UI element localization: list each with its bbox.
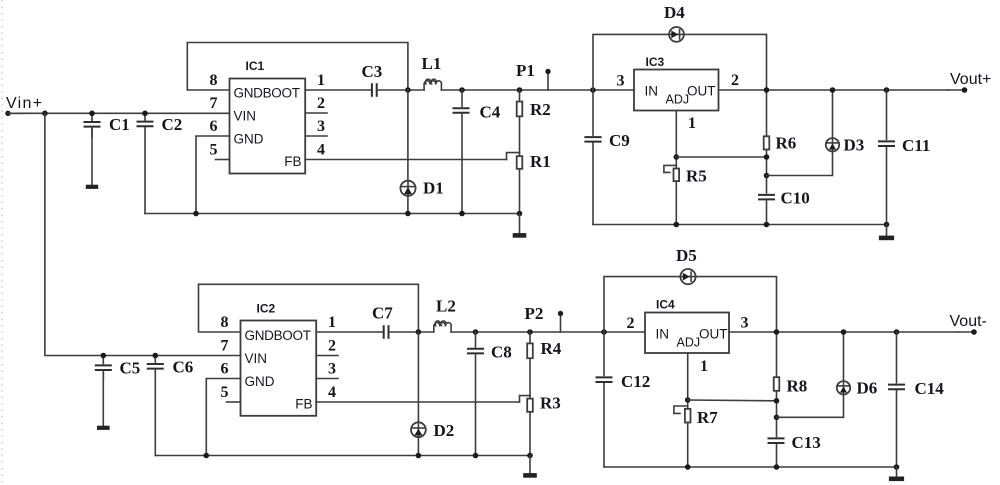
svg-text:C2: C2 — [162, 115, 183, 134]
voltage regulator IC3 body — [634, 70, 719, 111]
svg-text:R3: R3 — [540, 394, 561, 413]
pin 2 label IC2 — [328, 338, 336, 355]
wire ADJ node to R6 bottom — [676, 154, 769, 160]
label IC4 — [656, 298, 675, 312]
pin 4 label IC1 — [317, 142, 325, 159]
resistor R7 (preset, on ADJ line) — [674, 406, 691, 423]
svg-text:C11: C11 — [902, 136, 930, 155]
capacitor C8 — [467, 329, 486, 458]
svg-text:2: 2 — [317, 95, 325, 112]
svg-text:2: 2 — [627, 315, 635, 332]
svg-text:C13: C13 — [792, 433, 821, 452]
node Vout- terminal — [958, 329, 977, 335]
wire IC3 OUT pin 2 to output node — [719, 89, 949, 91]
wire IC2 pin 3 stub — [316, 378, 338, 380]
svg-text:Vin+: Vin+ — [6, 95, 43, 112]
label IC2 — [257, 302, 276, 316]
label D3 — [844, 136, 865, 155]
pin name VIN IC2 — [245, 351, 268, 366]
wire IC2 pin 1 to C7 — [316, 331, 383, 333]
capacitor C13 — [767, 437, 786, 444]
label IC1 — [246, 59, 265, 73]
svg-text:4: 4 — [328, 384, 336, 401]
label D1 — [423, 179, 444, 198]
pin 3 label IC2 — [328, 361, 336, 378]
pin 5 label IC1 — [210, 142, 218, 159]
wire IC2 boot loop pin 8 — [199, 284, 419, 332]
svg-text:VIN: VIN — [245, 351, 268, 366]
svg-text:2: 2 — [328, 338, 336, 355]
capacitor C6 — [146, 353, 164, 456]
label C13 — [792, 433, 821, 452]
svg-text:7: 7 — [221, 338, 229, 355]
label C14 — [915, 379, 945, 398]
svg-text:C10: C10 — [781, 189, 810, 208]
wire IC2 pin 5 stub — [227, 401, 241, 403]
junction IC4 output at loop right — [774, 329, 780, 335]
pin 3 label IC1 — [317, 118, 325, 135]
svg-text:L1: L1 — [422, 54, 442, 73]
svg-text:1: 1 — [700, 358, 708, 375]
wire ground rail B (IC3 section) — [593, 222, 889, 228]
svg-text:C7: C7 — [372, 304, 393, 323]
wire L2 to IC4 IN — [451, 331, 645, 333]
capacitor C5 — [94, 353, 112, 428]
svg-text:Vout+: Vout+ — [950, 71, 991, 88]
label R2 — [530, 100, 551, 119]
pin name FB IC1 — [284, 154, 301, 169]
wire ground rail C (bottom converter) — [155, 455, 530, 457]
voltage regulator IC4 body — [645, 313, 729, 354]
wire IC1 pin 3 stub — [305, 135, 327, 137]
wire IC1 GND pin 6 to rail — [193, 136, 229, 216]
wire IC1 boot loop pin 8 — [187, 43, 408, 91]
svg-text:7: 7 — [210, 95, 218, 112]
diode D6 (circled) — [837, 381, 850, 394]
junction ADJ / R5 node — [674, 154, 680, 160]
wire IC2 FB pin 4 to R3 tap — [316, 401, 519, 403]
svg-text:P1: P1 — [516, 61, 535, 80]
svg-text:IN: IN — [645, 84, 659, 99]
wire IC1 FB pin 4 to R1 tap — [305, 159, 506, 161]
capacitor C7 — [384, 325, 434, 339]
pin name GND BOOT IC2 — [245, 328, 311, 343]
junction Vin+ branch to lower section — [42, 111, 48, 117]
pin name ADJ IC4 — [677, 336, 701, 350]
svg-text:C4: C4 — [480, 103, 501, 122]
pin 1 label IC4 — [700, 358, 708, 375]
svg-text:C8: C8 — [491, 343, 512, 362]
svg-text:C3: C3 — [362, 62, 383, 81]
svg-text:D1: D1 — [423, 179, 444, 198]
wire ground rail A (top converter) — [145, 213, 520, 215]
svg-text:2: 2 — [731, 72, 739, 89]
svg-text:1: 1 — [688, 115, 696, 132]
svg-text:D3: D3 — [844, 136, 865, 155]
pin name IN IC4 — [656, 327, 670, 342]
svg-text:R7: R7 — [697, 408, 718, 427]
pin 4 label IC2 — [328, 384, 336, 401]
svg-text:5: 5 — [221, 384, 229, 401]
wire node to diode D3 — [767, 87, 836, 175]
capacitor C1 — [83, 111, 101, 187]
wire IC4 ADJ pin 1 down — [687, 353, 689, 467]
pin name OUT IC3 — [687, 84, 716, 99]
ground (top converter rail A) — [513, 214, 527, 236]
capacitor C14 — [888, 329, 907, 467]
svg-text:D6: D6 — [857, 379, 878, 398]
wire IC4 OUT pin 3 to output node — [729, 331, 958, 333]
svg-text:OUT: OUT — [699, 327, 728, 342]
svg-text:IN: IN — [656, 327, 670, 342]
wire IC3 protection loop (left, top, right) — [593, 34, 767, 224]
svg-text:1: 1 — [328, 314, 336, 331]
pin 8 label IC2 — [221, 314, 229, 331]
wire IC1 pin 5 stub — [216, 159, 230, 161]
pin name VIN IC1 — [234, 109, 257, 124]
label C9 — [609, 131, 630, 150]
label C10 — [781, 189, 810, 208]
svg-text:GND: GND — [234, 132, 264, 147]
svg-text:C9: C9 — [609, 131, 630, 150]
label R5 — [686, 167, 707, 186]
resistor R6 — [764, 136, 770, 149]
pin 1 label IC1 — [317, 72, 325, 89]
svg-text:1: 1 — [317, 72, 325, 89]
pin name GND BOOT IC1 — [234, 86, 300, 101]
label Vout+ — [950, 71, 991, 88]
pin name FB IC2 — [295, 397, 312, 412]
label C12 — [621, 372, 650, 391]
svg-text:D5: D5 — [676, 246, 697, 265]
svg-text:R5: R5 — [686, 167, 707, 186]
label D5 — [676, 246, 697, 265]
svg-text:6: 6 — [210, 118, 218, 135]
capacitor C3 — [372, 83, 424, 97]
capacitor C12 — [595, 376, 614, 383]
capacitor C11 — [878, 87, 897, 224]
svg-text:8: 8 — [210, 72, 218, 89]
svg-text:3: 3 — [617, 73, 625, 90]
label C7 — [372, 304, 393, 323]
diode D3 (circled) — [826, 138, 839, 151]
svg-text:D4: D4 — [664, 3, 685, 22]
resistor R8 — [774, 377, 780, 391]
pin 6 label IC2 — [221, 361, 229, 378]
svg-text:C1: C1 — [109, 115, 130, 134]
label R7 — [697, 408, 718, 427]
capacitor C10 — [758, 194, 777, 201]
diode D4 (circled, across IC3) — [669, 27, 684, 42]
label D6 — [857, 379, 878, 398]
junction D1 at rail A — [405, 211, 411, 217]
junction IC3 input node — [590, 87, 596, 93]
wire IC1 pin 2 stub — [305, 112, 327, 114]
svg-text:IC2: IC2 — [257, 302, 276, 316]
pin 2 label IC3 — [731, 72, 739, 89]
pin name GND IC2 — [245, 374, 275, 389]
svg-text:R1: R1 — [530, 152, 551, 171]
junction R3 at rail C — [527, 453, 533, 459]
pin 1 label IC2 — [328, 314, 336, 331]
junction R6/C10/D3 node — [764, 173, 770, 179]
pin 7 label IC1 — [210, 95, 218, 112]
ic IC2 body — [241, 321, 317, 416]
svg-text:GNDBOOT: GNDBOOT — [245, 328, 311, 343]
svg-text:C6: C6 — [173, 358, 194, 377]
label D4 — [664, 3, 685, 22]
label C3 — [362, 62, 383, 81]
svg-text:5: 5 — [210, 142, 218, 159]
junction P1 node — [517, 87, 523, 93]
pin 8 label IC1 — [210, 72, 218, 89]
ground (bottom converter rail C) — [523, 456, 537, 476]
label C1 — [109, 115, 130, 134]
wire IC1 pin 1 to C3 — [305, 89, 372, 91]
wire IC2 pin 2 stub — [316, 355, 338, 357]
label C6 — [173, 358, 194, 377]
svg-text:6: 6 — [221, 361, 229, 378]
inductor L1 — [424, 79, 441, 90]
capacitor C4 — [452, 87, 470, 216]
label C2 — [162, 115, 183, 134]
pin 7 label IC2 — [221, 338, 229, 355]
junction IC4 input node — [601, 329, 607, 335]
pin 3 label IC3 — [617, 73, 625, 90]
label C8 — [491, 343, 512, 362]
junction R8/C13/D6 node — [774, 415, 780, 421]
wire Vin+ rail to IC1 VIN pin 7 — [8, 112, 230, 114]
svg-text:VIN: VIN — [234, 109, 257, 124]
label C4 — [480, 103, 501, 122]
svg-text:IC4: IC4 — [656, 298, 675, 312]
resistor R4 — [527, 332, 533, 399]
label D2 — [434, 421, 455, 440]
pin name IN IC3 — [645, 84, 659, 99]
label R1 — [530, 152, 551, 171]
svg-text:3: 3 — [317, 118, 325, 135]
svg-text:OUT: OUT — [687, 84, 716, 99]
resistor R2 — [517, 90, 523, 156]
wire Vin+ input lead — [5, 111, 24, 116]
svg-text:GNDBOOT: GNDBOOT — [234, 86, 300, 101]
junction boot loop / switch node 2 — [416, 329, 422, 335]
wire ground rail D (IC4 section) — [604, 464, 899, 470]
svg-text:P2: P2 — [525, 304, 544, 323]
junction P2 node — [527, 329, 533, 335]
label R4 — [541, 339, 562, 358]
wire ADJ node to R8 bottom — [688, 398, 780, 404]
label L1 — [422, 54, 442, 73]
wire Vin+ feed down to lower section — [45, 113, 241, 355]
pin 3 label IC4 — [741, 315, 749, 332]
wire L1 to IC3 IN — [441, 89, 634, 91]
diode D5 (circled, across IC4) — [680, 269, 695, 284]
pin name ADJ IC3 — [666, 93, 690, 107]
capacitor C2 — [136, 111, 154, 214]
svg-text:R4: R4 — [541, 339, 562, 358]
junction ADJ / R7 node — [685, 397, 691, 403]
pin 5 label IC2 — [221, 384, 229, 401]
label R3 — [540, 394, 561, 413]
test point P2 probe — [558, 311, 563, 332]
svg-text:D2: D2 — [434, 421, 455, 440]
svg-text:8: 8 — [221, 314, 229, 331]
wire IC4 protection loop (left, top, right) — [604, 277, 777, 467]
svg-text:IC1: IC1 — [246, 59, 265, 73]
ground (rail D) — [889, 467, 904, 479]
label Vout- — [950, 313, 987, 330]
resistor R5 (preset, on ADJ line) — [664, 165, 679, 181]
pin 1 label IC3 — [688, 115, 696, 132]
svg-text:C12: C12 — [621, 372, 650, 391]
svg-text:R6: R6 — [776, 134, 797, 153]
svg-text:ADJ: ADJ — [677, 336, 701, 350]
pin 2 label IC4 — [627, 315, 635, 332]
label R6 — [776, 134, 797, 153]
svg-text:GND: GND — [245, 374, 275, 389]
pin 6 label IC1 — [210, 118, 218, 135]
junction D2 at rail C — [416, 453, 422, 459]
node Vout+ terminal — [948, 87, 967, 93]
svg-text:C14: C14 — [915, 379, 945, 398]
pin name OUT IC4 — [699, 327, 728, 342]
diode D1 (circled, on switch node to ground) — [400, 90, 415, 214]
svg-text:IC3: IC3 — [646, 55, 665, 69]
svg-text:R2: R2 — [530, 100, 551, 119]
wire node to diode D6 — [777, 329, 847, 417]
capacitor C9 — [584, 136, 603, 143]
svg-text:3: 3 — [328, 361, 336, 378]
svg-text:C5: C5 — [120, 359, 141, 378]
junction IC3 output at loop right — [764, 87, 770, 93]
svg-text:L2: L2 — [436, 297, 456, 316]
label P2 — [525, 304, 544, 323]
label R8 — [787, 377, 808, 396]
svg-text:4: 4 — [317, 142, 325, 159]
junction boot loop / switch node — [405, 87, 411, 93]
scan edge artifact — [1, 0, 3, 485]
svg-text:R8: R8 — [787, 377, 808, 396]
svg-text:Vout-: Vout- — [950, 313, 987, 330]
resistor R3 (with FB tap) — [520, 396, 533, 456]
pin name GND IC1 — [234, 132, 264, 147]
node Vin+ — [6, 95, 43, 112]
label C11 — [902, 136, 930, 155]
wire IC3 ADJ pin 1 down — [675, 111, 677, 225]
label IC3 — [646, 55, 665, 69]
op-amp U1 / ic IC1 body — [230, 79, 306, 174]
wire IC2 GND pin 6 to rail — [204, 379, 241, 459]
label C5 — [120, 359, 141, 378]
svg-text:3: 3 — [741, 315, 749, 332]
diode D2 (circled, on switch node to ground) — [411, 332, 426, 456]
svg-text:FB: FB — [295, 397, 312, 412]
test point P1 probe — [545, 69, 550, 90]
label P1 — [516, 61, 535, 80]
pin 2 label IC1 — [317, 95, 325, 112]
junction R1 at rail A — [517, 211, 523, 217]
resistor R1 (with FB tap) — [507, 153, 523, 214]
ground (rail B) — [879, 225, 894, 238]
label L2 — [436, 297, 456, 316]
svg-text:FB: FB — [284, 154, 301, 169]
svg-text:ADJ: ADJ — [666, 93, 690, 107]
inductor L2 — [434, 321, 451, 332]
